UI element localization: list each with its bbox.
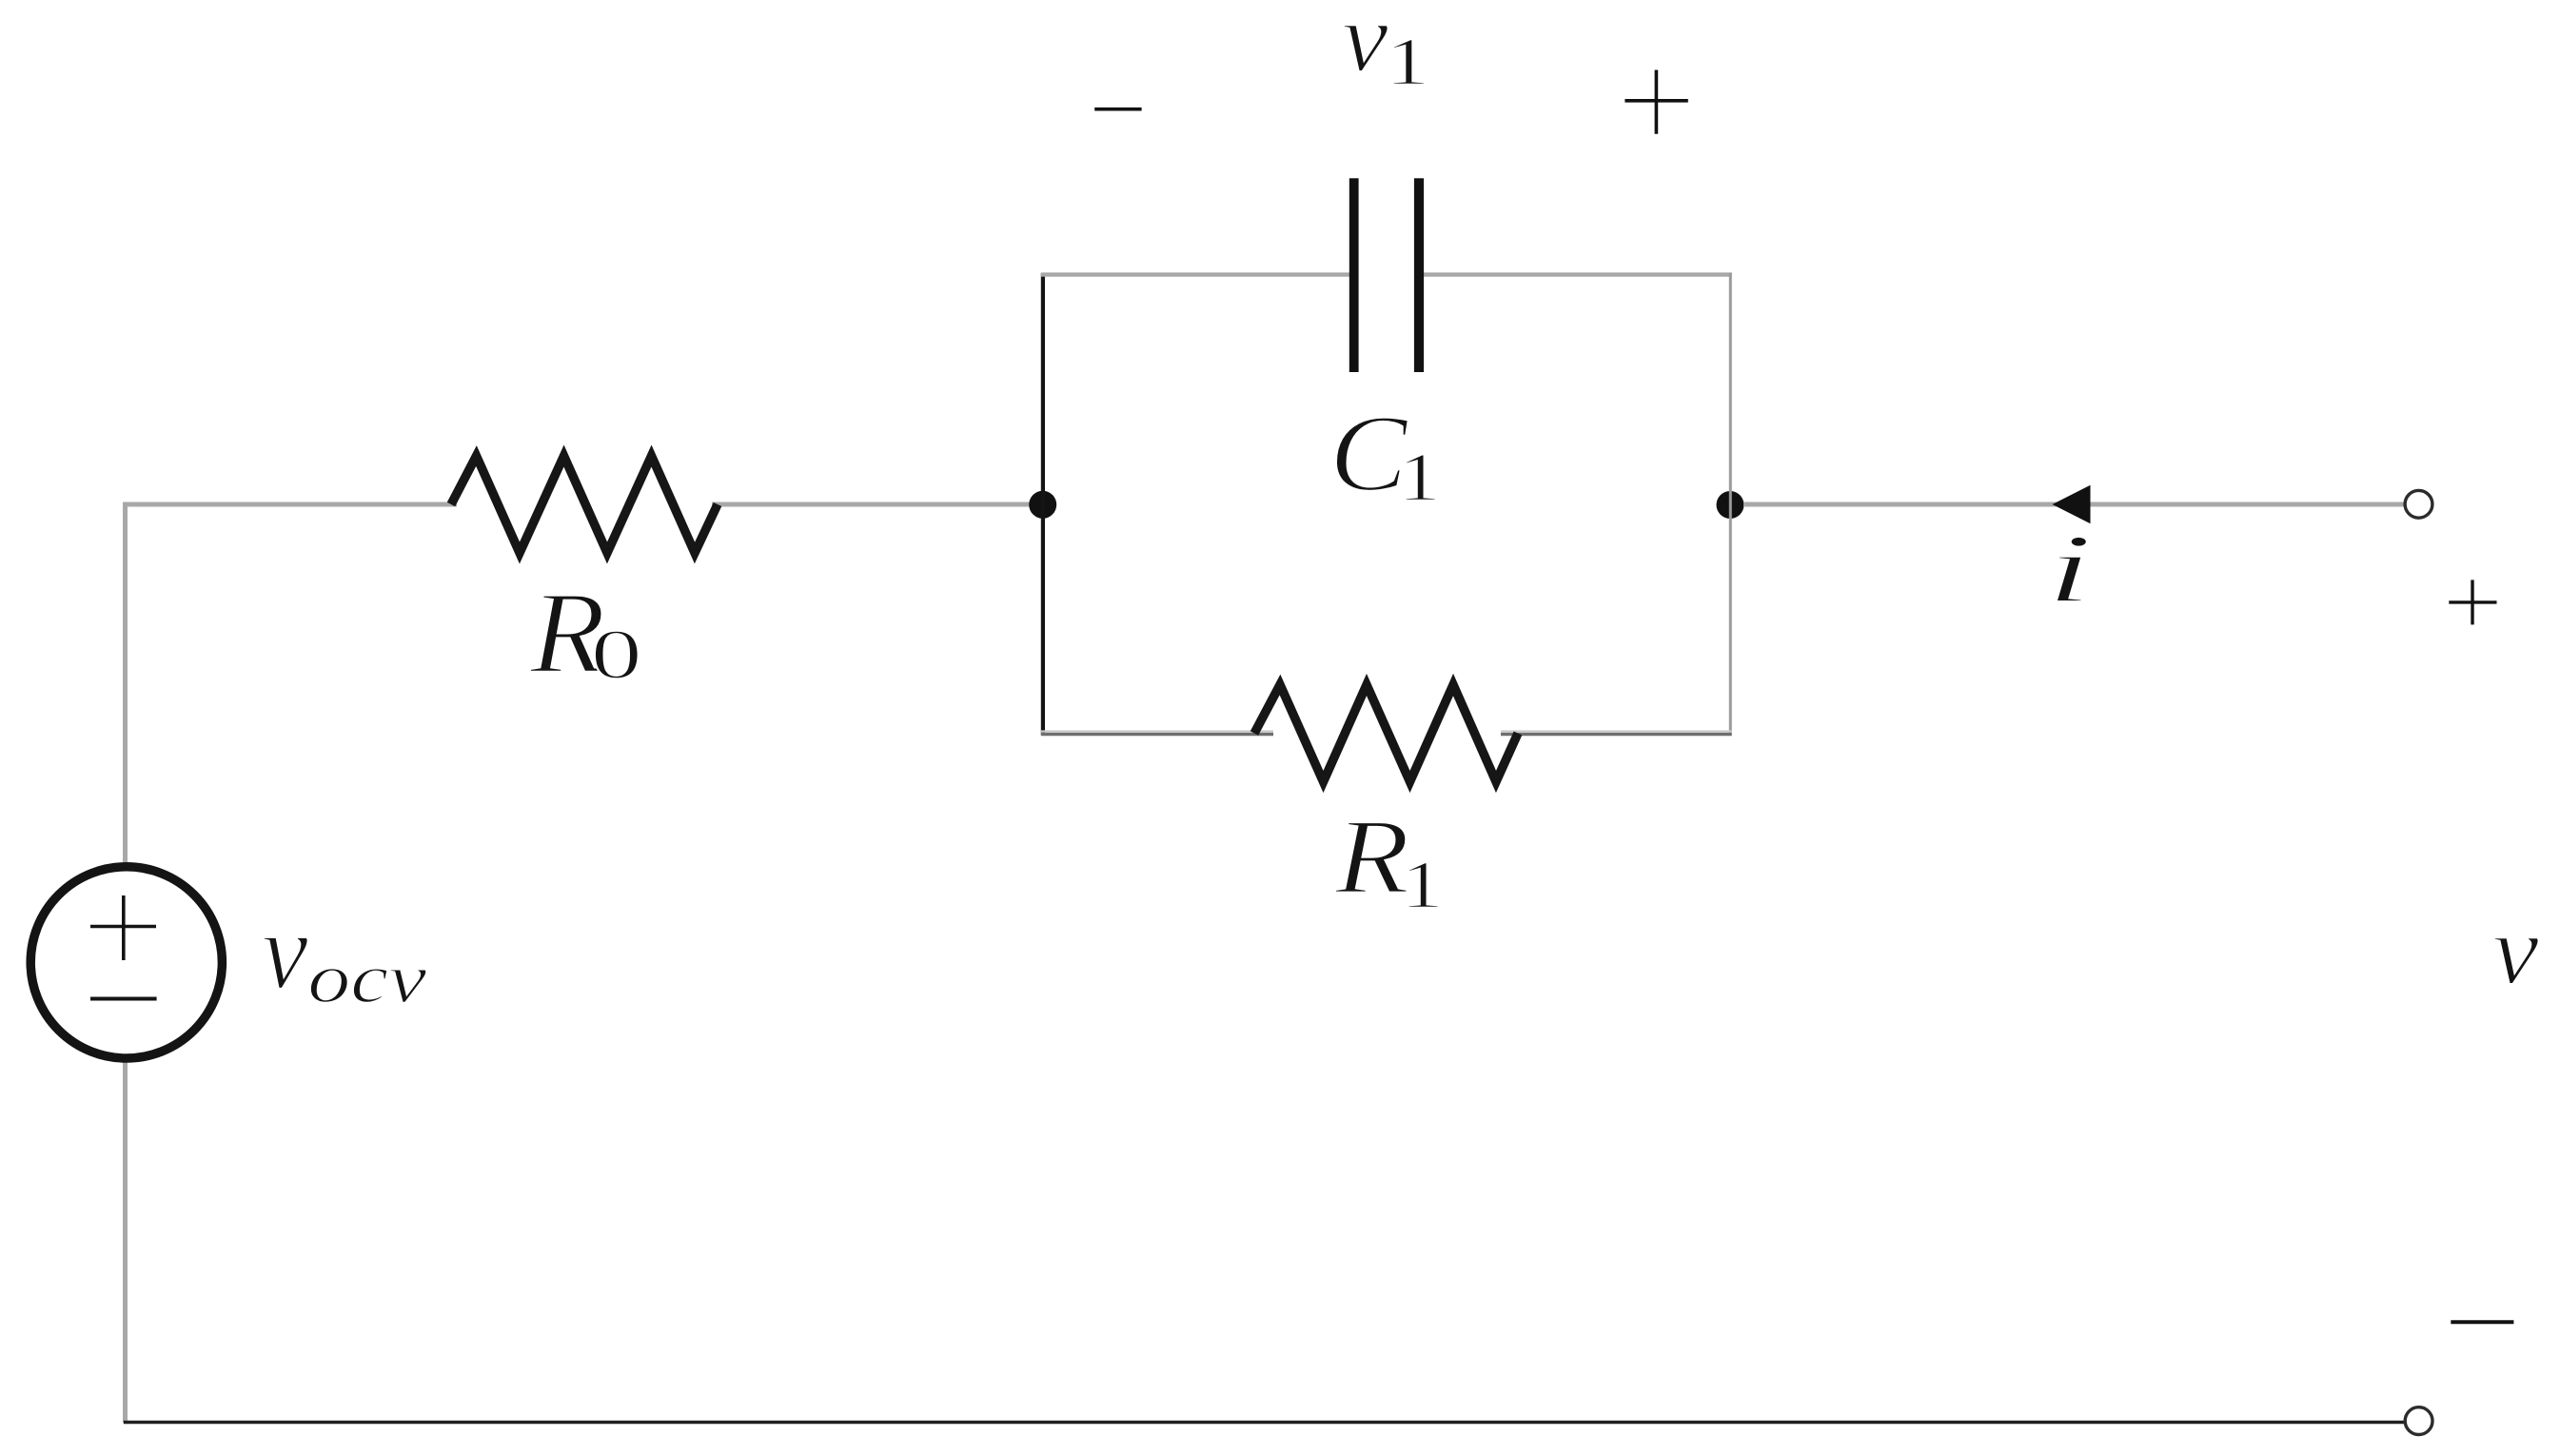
resistor R1 — [1254, 685, 1518, 782]
label R0 — [529, 568, 642, 698]
resistor R0 — [451, 456, 718, 553]
wire box right edge — [1729, 273, 1732, 734]
wire bottom — [124, 1421, 2405, 1425]
label C1 — [1329, 393, 1441, 516]
plus sign of v output — [2449, 580, 2496, 624]
terminal top right — [2405, 490, 2432, 518]
minus sign inside source — [90, 997, 157, 1001]
capacitor C1 — [1349, 178, 1424, 372]
wire box bottom left segment — [1041, 732, 1273, 735]
node A junction dot left — [1029, 491, 1056, 519]
svg-text:0: 0 — [591, 615, 642, 694]
svg-text:R: R — [1334, 798, 1409, 916]
wire top left segment — [124, 502, 458, 507]
label i — [2046, 515, 2093, 623]
wire box top right segment — [1424, 272, 1732, 276]
plus sign of v1 — [1625, 70, 1687, 134]
wire box top left segment — [1041, 272, 1349, 276]
minus sign of v1 — [1094, 108, 1141, 111]
wire top middle segment — [712, 502, 1039, 507]
svg-text:1: 1 — [1386, 25, 1430, 99]
terminal bottom right — [2405, 1407, 2432, 1435]
svg-text:v: v — [2492, 895, 2539, 1006]
wire output top — [1743, 502, 2404, 507]
voltage source Vocv — [30, 867, 222, 1058]
label vocv — [262, 892, 427, 1017]
wire left vertical upper — [123, 502, 128, 871]
svg-text:1: 1 — [1398, 439, 1441, 516]
wire box left edge — [1041, 273, 1045, 736]
svg-text:ocv: ocv — [307, 938, 426, 1017]
label v1 — [1342, 0, 1430, 99]
plus sign inside source — [90, 895, 156, 960]
wire left vertical lower — [123, 1054, 128, 1423]
svg-text:v: v — [262, 892, 308, 1013]
svg-text:1: 1 — [1401, 848, 1444, 923]
label R1 — [1334, 798, 1444, 922]
current arrow i — [2053, 485, 2091, 523]
wire box bottom right segment — [1501, 732, 1732, 735]
svg-text:i: i — [2046, 515, 2093, 623]
minus sign of v output — [2451, 1320, 2513, 1324]
label v output — [2492, 895, 2539, 1006]
node B junction dot right — [1717, 491, 1744, 519]
svg-text:v: v — [1342, 0, 1388, 92]
svg-text:C: C — [1329, 393, 1409, 515]
